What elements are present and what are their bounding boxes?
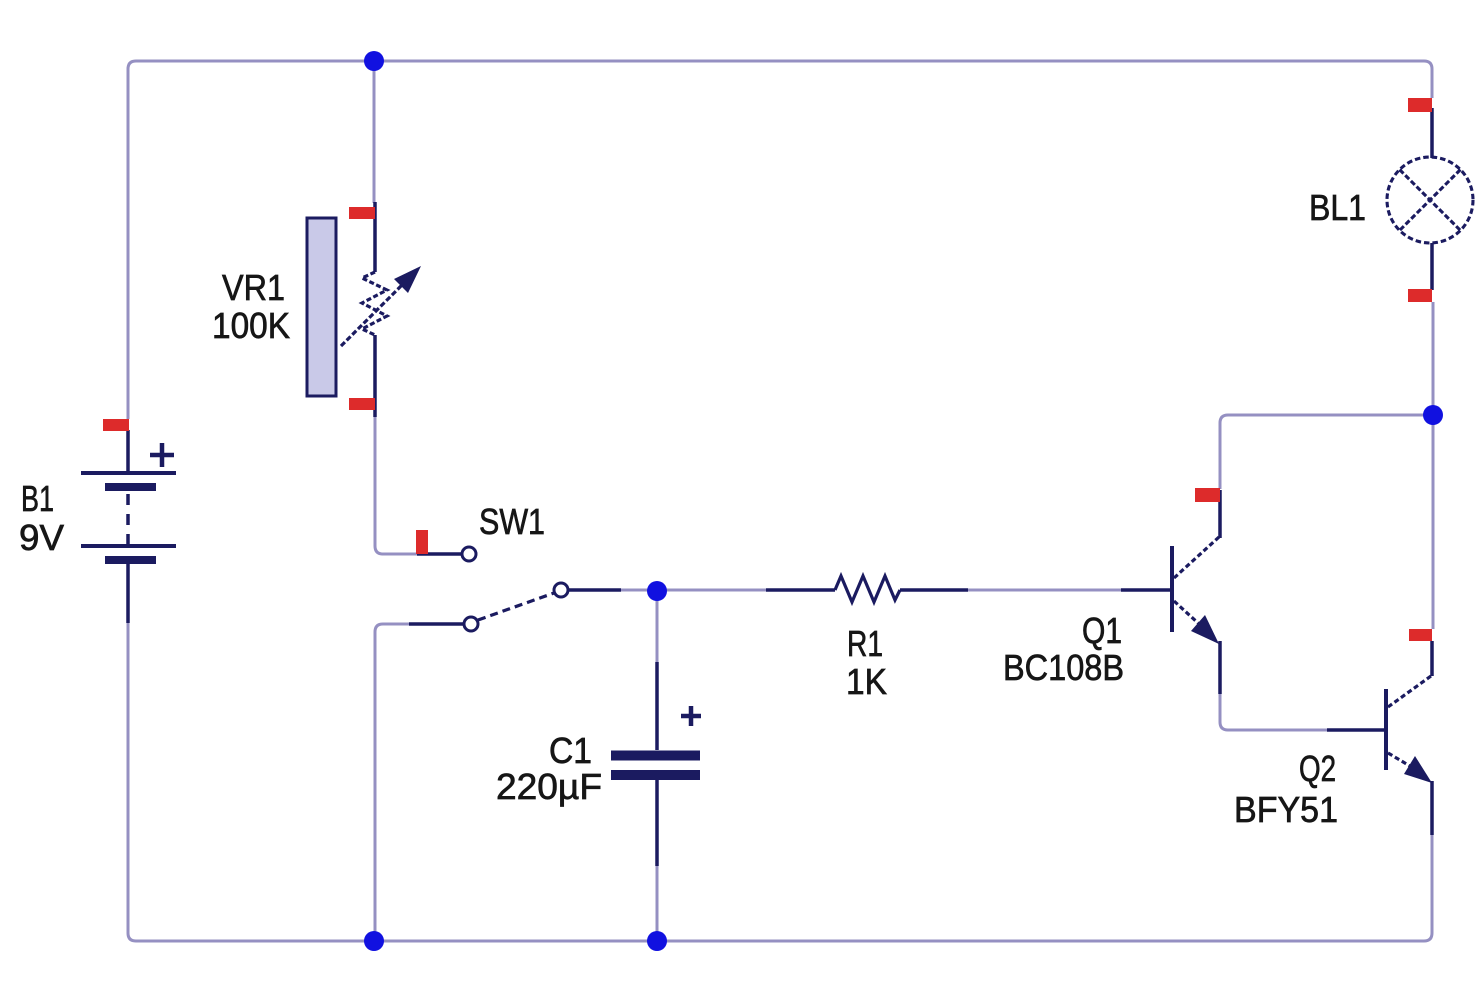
pin tick Q2 collector [1409,629,1432,641]
wire C1 to bottom bus [656,865,659,941]
wire node to C1 [656,591,659,663]
wire left-bottom [128,623,136,941]
svg-text:B1: B1 [21,478,54,519]
battery B1 plate short 1 [105,483,156,491]
svg-text:9V: 9V [19,517,64,558]
wire R1 to Q1 base [968,589,1121,592]
capacitor C1 plate bottom [611,770,700,780]
node junction bottom left [364,931,384,951]
variable resistor VR1 arrowhead [394,266,421,293]
svg-text:Q1: Q1 [1082,610,1122,651]
switch SW1 fixed lead [417,552,461,556]
battery B1 plate long 2 [81,544,176,548]
pin tick Q1 collector [1195,488,1220,502]
variable resistor VR1 arrow shaft [341,278,409,346]
node junction top [364,51,384,71]
node junction bottom C1 [647,931,667,951]
lamp BL1 circle [1387,157,1473,243]
transistor Q2 emitter lead [1430,781,1434,835]
svg-text:100K: 100K [212,305,290,346]
transistor Q1 emitter arrowhead [1191,615,1219,644]
battery B1 plate short 2 [105,556,156,564]
transistor Q2 emitter arrowhead [1404,756,1432,783]
capacitor C1 lead top [655,662,659,750]
variable resistor VR1 body [307,218,336,396]
wire Q1 collector up [1220,415,1433,489]
wire node to R1 [657,589,766,592]
svg-text:BFY51: BFY51 [1234,789,1338,830]
svg-text:R1: R1 [847,623,883,664]
wire SW1 pole to node [621,589,657,592]
wire Q2 emitter to bottom bus [1431,835,1434,933]
lamp BL1 cross [1400,170,1461,231]
pin tick B1 top [103,419,129,431]
pin tick VR1 bottom [349,398,375,410]
switch SW1 lower lead [409,622,464,626]
node junction right [1423,405,1443,425]
pin tick BL1 bottom [1408,289,1432,302]
variable resistor VR1 lead top [373,202,377,272]
wire right node up to lamp [1432,302,1435,415]
capacitor C1 plate top [611,751,700,761]
transistor Q2 base bar [1384,689,1388,770]
transistor Q2 base lead [1327,728,1384,732]
svg-text:SW1: SW1 [479,501,545,542]
wire right node down to Q2 collector [1432,415,1435,629]
pin tick SW1 [416,530,428,554]
switch SW1 pole lead [568,588,621,592]
svg-text:1K: 1K [846,661,887,702]
transistor Q1 collector lead [1218,490,1222,538]
pin tick VR1 top [349,207,375,219]
wire Q1 emitter to Q2 base [1220,693,1327,730]
resistor R1 zigzag [835,576,900,602]
wire SW1 lower throw to bottom bus [375,624,409,941]
battery B1 plate long 1 [81,471,176,475]
pin tick BL1 top [1408,98,1432,112]
transistor Q1 emitter diagonal [1174,601,1210,634]
transistor Q2 emitter diagonal [1388,753,1420,772]
wire top bus [128,61,1432,98]
node junction SW1 output [647,581,667,601]
svg-text:BC108B: BC108B [1003,647,1124,688]
battery B1 lead bottom [126,564,130,623]
wire left bus [127,69,130,419]
capacitor C1 plus sign [681,706,701,726]
transistor Q1 base lead [1121,588,1170,592]
svg-text:VR1: VR1 [222,267,285,308]
transistor Q1 collector diagonal [1174,537,1219,578]
variable resistor VR1 lead bottom [373,335,377,417]
wire bottom bus [136,835,1432,941]
transistor Q2 collector lead [1430,641,1434,676]
resistor R1 lead right [900,588,968,592]
switch SW1 contact circle pole [554,583,568,597]
lamp BL1 lead bottom [1430,243,1434,290]
svg-text:C1: C1 [549,730,592,771]
switch SW1 moving arm [478,593,554,620]
transistor Q2 collector diagonal [1388,676,1431,707]
capacitor C1 lead bottom [655,780,659,866]
transistor Q1 emitter lead [1218,641,1222,694]
wire VR1 top [373,61,376,203]
battery B1 lead top [126,430,130,473]
battery B1 dashed link [126,494,130,544]
resistor R1 lead left [766,588,835,592]
variable resistor VR1 zigzag [362,272,387,335]
switch SW1 contact circle lower [464,617,478,631]
svg-text:BL1: BL1 [1309,187,1366,228]
wire VR1 bottom to SW1 [375,416,417,554]
switch SW1 contact circle top [462,547,476,561]
transistor Q1 base bar [1170,546,1174,632]
svg-text:220µF: 220µF [496,766,602,807]
svg-text:Q2: Q2 [1299,748,1336,789]
battery B1 plus sign [150,443,174,467]
lamp BL1 lead top [1430,108,1434,158]
